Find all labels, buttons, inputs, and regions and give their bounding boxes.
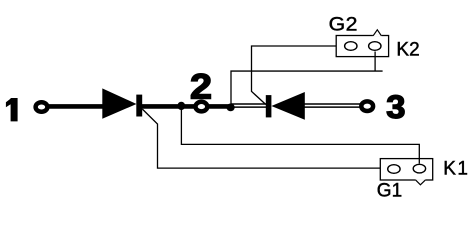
wire gate G2 from Th2 gate to connector box [252, 46, 337, 105]
terminal label 1 [6, 98, 18, 121]
connector box G1/K1 [380, 159, 432, 180]
wire (double line) Th2 anode to terminal 3 [305, 103, 362, 105]
svg-text:K2: K2 [396, 40, 419, 61]
svg-text:G1: G1 [377, 180, 402, 201]
thyristor Th2 cathode bar [266, 95, 272, 117]
svg-text:3: 3 [386, 90, 405, 126]
notch opening on top edge [373, 35, 382, 37]
thyristor Th1 (anode=1, cathode=2) triangle [102, 88, 136, 118]
terminal pin K1 (ellipse) [413, 164, 425, 173]
svg-text:G2: G2 [329, 14, 358, 35]
wire Th1 cathode to terminal 2 [142, 104, 198, 109]
terminal pin G2 (ellipse) [345, 42, 357, 51]
junction node K2 tap [227, 104, 235, 112]
thyristor Th1 cathode bar [136, 95, 142, 117]
notch opening on bottom edge [415, 179, 426, 181]
terminal 3 circle [361, 101, 373, 111]
terminal pin G1 (ellipse) [388, 165, 400, 174]
terminal 1 circle [36, 102, 48, 112]
terminal pin K2 (ellipse) [369, 42, 381, 51]
junction node K1 tap [177, 102, 185, 110]
notch on connector box G2/K2 [373, 30, 381, 36]
notch on connector box G1/K1 [415, 180, 425, 185]
wire gate G1 from Th1 gate to connector box [142, 109, 380, 168]
wire terminal1 to thyristor Th1 anode [47, 104, 104, 109]
terminal 2 circle [196, 102, 208, 112]
svg-text:K1: K1 [443, 158, 469, 179]
wire K1 from cathode node to connector box [181, 106, 419, 164]
connector box G2/K2 [336, 36, 388, 57]
wire K2 from cathode node to connector box [231, 71, 383, 106]
thyristor Th2 (anode=3, cathode=2) triangle [271, 92, 304, 120]
wire K2 vertical into connector box [374, 52, 376, 72]
wire terminal 2 to K2 tap node [206, 104, 232, 109]
wire (double line) K2 node to Th2 cathode bar [232, 103, 267, 105]
